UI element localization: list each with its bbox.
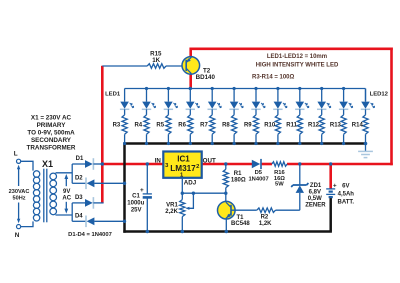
label T1 BC548 (231, 215, 250, 227)
resistor R12 (319, 115, 324, 144)
node C1 positive junction (146, 162, 149, 165)
resistor R1 (223, 164, 228, 193)
svg-text:PRIMARY: PRIMARY (37, 122, 67, 129)
node D4 to negative bus (123, 220, 126, 223)
wire L to primary (21, 161, 33, 170)
svg-text:R3: R3 (113, 123, 121, 129)
wire black bottom ground bus (123, 230, 332, 233)
wire red positive rail from R16 to right edge (287, 163, 393, 166)
svg-text:R13: R13 (330, 123, 342, 129)
diode D4 (72, 216, 124, 228)
node R6 cathode junction (189, 142, 192, 145)
node R9 cathode junction (254, 142, 257, 145)
label C1 value (127, 194, 144, 214)
label battery value (338, 184, 355, 206)
label transformer description (27, 115, 76, 152)
resistor R7 (210, 115, 215, 144)
svg-text:T1: T1 (236, 215, 244, 221)
wire ADJ to T1 collector (182, 192, 226, 194)
node R12 cathode junction (320, 142, 323, 145)
svg-text:ZD1: ZD1 (310, 183, 322, 189)
svg-text:6V: 6V (342, 184, 349, 190)
svg-text:L: L (14, 150, 18, 157)
svg-text:OUT: OUT (203, 157, 216, 164)
node T1 collector junction (224, 192, 227, 195)
LED LED9 (295, 89, 309, 115)
svg-text:LED1: LED1 (105, 91, 121, 97)
svg-text:D1-D4 = 1N4007: D1-D4 = 1N4007 (68, 232, 112, 238)
svg-text:LM317: LM317 (170, 164, 196, 173)
node wiper junction (192, 192, 195, 195)
wire N to primary (21, 221, 33, 226)
svg-text:LED12: LED12 (370, 91, 389, 97)
svg-text:N: N (15, 232, 20, 239)
svg-text:1,2K: 1,2K (259, 221, 272, 227)
op-amp regulator IC1 LM317 (163, 152, 201, 179)
label R1 value (231, 171, 246, 184)
resistor R8 (232, 115, 237, 144)
diode D2 (72, 178, 124, 190)
svg-text:2: 2 (196, 164, 199, 170)
svg-text:C1: C1 (132, 194, 140, 200)
LED LED2 (142, 89, 156, 115)
node LED8 anode junction (276, 87, 279, 90)
wire red T2 collector to LED bus (189, 74, 192, 89)
svg-text:4,5Ah: 4,5Ah (338, 191, 355, 197)
ground (358, 144, 373, 158)
LED LED6 (229, 89, 243, 115)
svg-text:1000u: 1000u (127, 201, 144, 207)
svg-text:9V: 9V (63, 189, 70, 195)
resistor R5 (166, 115, 171, 144)
node LED4 anode junction (189, 87, 192, 90)
node R11 cathode junction (298, 142, 301, 145)
wire red right vertical edge (390, 48, 393, 166)
transformer X1 core (44, 169, 47, 223)
svg-text:ADJ: ADJ (184, 180, 197, 187)
svg-text:R2: R2 (261, 214, 269, 220)
label LED1-LED12 = 10mm note (256, 54, 339, 68)
node LED11 anode junction (342, 87, 345, 90)
wire LED anode bus (125, 88, 366, 90)
node LED5 anode junction (211, 87, 214, 90)
svg-text:+: + (140, 187, 144, 194)
resistor R6 (188, 115, 193, 144)
node R10 cathode junction (276, 142, 279, 145)
svg-text:0,5W: 0,5W (308, 196, 322, 202)
svg-text:ZENER: ZENER (305, 202, 326, 208)
node R7 cathode junction (211, 142, 214, 145)
node R5 cathode junction (167, 142, 170, 145)
svg-text:BC548: BC548 (231, 221, 250, 227)
LED LED11 (339, 89, 353, 115)
svg-text:D2: D2 (75, 175, 83, 181)
svg-text:HIGH INTENSITY WHITE LED: HIGH INTENSITY WHITE LED (256, 62, 339, 68)
wire black LED cathode bus (123, 142, 365, 145)
LED LED3 (164, 89, 178, 115)
battery 6V 4.5Ah (326, 183, 337, 198)
svg-text:2,2K: 2,2K (165, 209, 178, 215)
label 230VAC 50Hz with span arrow (9, 165, 30, 223)
node ground junction (364, 142, 368, 146)
LED LED1 (120, 89, 134, 115)
svg-text:VR1: VR1 (166, 203, 178, 209)
wire LED12 feed corner (365, 89, 367, 101)
svg-text:R9: R9 (244, 123, 252, 129)
svg-text:D5: D5 (255, 170, 263, 176)
svg-text:R11: R11 (286, 123, 297, 129)
svg-text:25V: 25V (131, 208, 142, 214)
svg-text:R8: R8 (222, 123, 230, 129)
svg-text:R12: R12 (308, 123, 320, 129)
svg-text:X1: X1 (42, 159, 53, 169)
resistor R15 (102, 64, 186, 69)
node LED10 anode junction (320, 87, 323, 90)
svg-text:R7: R7 (200, 123, 208, 129)
node LED3 anode junction (167, 87, 170, 90)
resistor R2 (231, 208, 300, 213)
svg-text:R10: R10 (264, 123, 276, 129)
capacitor C1 (140, 164, 152, 232)
resistor R14 (363, 115, 368, 144)
LED LED12 (361, 89, 375, 115)
node LED2 anode junction (145, 87, 148, 90)
LED LED7 (251, 89, 265, 115)
LED LED4 (186, 89, 200, 115)
wire black left vertical negative return (123, 144, 126, 233)
node bridge positive junction (101, 162, 104, 165)
transistor T1 BC548 NPN (218, 201, 236, 231)
wire red positive rail from IC1 OUT to D5 (202, 163, 252, 166)
zener diode ZD1 (291, 164, 308, 210)
wire red battery positive drop (329, 164, 332, 189)
resistor R13 (341, 115, 346, 144)
svg-text:LED1-LED12 = 10mm: LED1-LED12 = 10mm (267, 54, 327, 60)
diode D3 (72, 197, 103, 209)
svg-text:180Ω: 180Ω (231, 177, 246, 183)
svg-text:TRANSFORMER: TRANSFORMER (27, 145, 76, 152)
wire secondary bottom tap (56, 214, 73, 216)
resistor R10 (275, 115, 280, 144)
label D5 value (248, 170, 268, 182)
wire black battery negative drop (329, 198, 332, 232)
node T2 collector junction on LED bus (189, 87, 192, 90)
transistor T2 BD140 PNP (182, 57, 200, 75)
resistor R16 (272, 162, 287, 167)
node ZD1 top junction (298, 162, 301, 165)
resistor R4 (144, 115, 149, 144)
svg-text:X1 = 230V AC: X1 = 230V AC (31, 115, 72, 122)
resistor R9 (253, 115, 258, 144)
svg-text:R5: R5 (156, 123, 164, 129)
node VR1 ground junction (181, 230, 184, 233)
svg-text:50Hz: 50Hz (12, 196, 25, 202)
wire red T2 emitter drop (189, 48, 192, 58)
wire ADJ pin (181, 178, 183, 193)
LED LED8 (273, 89, 287, 115)
node R8 cathode junction (233, 142, 236, 145)
resistor R3 (122, 115, 127, 144)
node R1 top junction (224, 162, 227, 165)
node LED6 anode junction (233, 87, 236, 90)
node LED9 anode junction (298, 87, 301, 90)
svg-text:R14: R14 (352, 123, 364, 129)
resistor R11 (297, 115, 302, 144)
wire T1 collector (225, 193, 227, 202)
potentiometer VR1 (180, 193, 194, 231)
wire bridge upper AC bracket (71, 164, 73, 183)
label R2 value (259, 214, 272, 227)
label ZD1 value (305, 183, 326, 208)
node N terminal (17, 225, 21, 229)
svg-text:BD140: BD140 (196, 74, 216, 81)
svg-text:R6: R6 (178, 123, 186, 129)
svg-text:IC1: IC1 (177, 154, 190, 163)
label 9V AC with span arrow (62, 174, 71, 214)
wire red top horizontal to T2 emitter (190, 47, 392, 50)
svg-text:1K: 1K (152, 57, 160, 64)
svg-text:D3: D3 (75, 195, 83, 201)
svg-text:6,8V: 6,8V (309, 190, 321, 196)
wire red positive rail from D5 to R16 (262, 163, 272, 166)
svg-text:TO 0-9V, 500mA: TO 0-9V, 500mA (27, 130, 75, 137)
wire bridge lower AC bracket (71, 203, 73, 221)
svg-text:D4: D4 (75, 213, 83, 219)
wire red positive rail from bridge D1 to IC1 IN (102, 163, 163, 166)
node D2 to negative bus (123, 182, 126, 185)
svg-text:BATT.: BATT. (338, 199, 355, 205)
svg-text:SECONDARY: SECONDARY (31, 137, 72, 144)
transformer X1 secondary winding (50, 173, 57, 215)
svg-text:IN: IN (155, 157, 162, 164)
label VR1 (165, 203, 178, 215)
wire secondary top tap (56, 172, 73, 174)
svg-text:R4: R4 (134, 123, 142, 129)
svg-text:R3-R14 = 100Ω: R3-R14 = 100Ω (252, 75, 295, 81)
node R3 cathode junction (123, 142, 126, 145)
node battery positive junction (329, 162, 332, 165)
node R4 cathode junction (145, 142, 148, 145)
transformer X1 primary winding (33, 171, 39, 221)
node LED7 anode junction (254, 87, 257, 90)
node C1 ground junction (146, 230, 149, 233)
diode D1 (72, 158, 102, 170)
svg-text:230VAC: 230VAC (9, 189, 30, 195)
LED LED10 (317, 89, 331, 115)
node L terminal (17, 159, 21, 163)
svg-text:R1: R1 (234, 171, 242, 177)
svg-text:1N4007: 1N4007 (248, 177, 268, 183)
svg-text:D1: D1 (76, 156, 84, 162)
node ADJ junction (181, 192, 184, 195)
LED LED5 (208, 89, 222, 115)
node R13 cathode junction (342, 142, 345, 145)
svg-text:AC: AC (62, 196, 71, 202)
svg-text:5W: 5W (275, 182, 284, 188)
node T1 emitter junction (225, 230, 228, 233)
diode D5 (252, 159, 261, 169)
label R16 value (274, 170, 286, 188)
wire red left vertical from R15 tap down to bridge (101, 66, 104, 203)
